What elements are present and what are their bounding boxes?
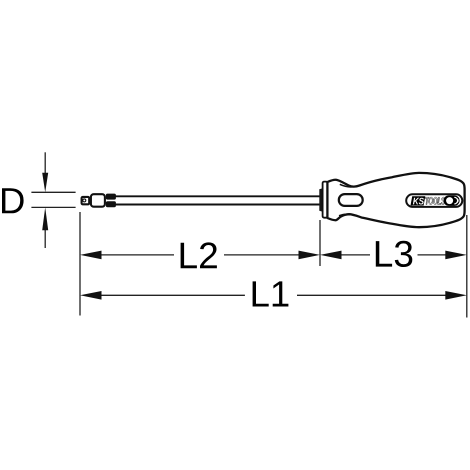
- label L1: [253, 281, 289, 306]
- logo oval black: [444, 195, 460, 206]
- L2 left arrowhead: [80, 251, 102, 260]
- screwdriver shaft: [116, 196, 321, 204]
- D arrowhead bottom: [42, 207, 48, 230]
- label L2: [181, 242, 217, 268]
- vertical extension lines: [79, 212, 81, 316]
- TOOLS outline text: [425, 197, 445, 205]
- L3 right arrowhead: [445, 251, 467, 260]
- dimension graphics: [31, 152, 466, 317]
- logo white circle: [446, 197, 453, 204]
- handle oval slot: [339, 194, 363, 206]
- handle collar band (white): [323, 182, 328, 218]
- L2 right arrowhead: [299, 251, 321, 260]
- KS letters: [413, 198, 424, 205]
- D arrowhead top: [42, 173, 48, 193]
- adapter body: [91, 194, 105, 207]
- KS logo black flag: [411, 196, 426, 205]
- adapter collar lower block: [106, 201, 116, 207]
- L2 dimension line: [97, 254, 174, 256]
- D extension lines: [31, 191, 75, 193]
- L1 dimension line: [97, 294, 245, 296]
- L1 left arrowhead: [80, 291, 102, 300]
- ball detent: [83, 199, 86, 202]
- L1 right arrowhead: [445, 291, 467, 300]
- label D: [2, 188, 24, 213]
- bottom finger-groove crease: [339, 214, 357, 216]
- label L3: [376, 241, 413, 267]
- square drive tip: [82, 197, 90, 204]
- adapter collar upper block: [106, 194, 116, 200]
- D arrow tails: [44, 152, 46, 174]
- rear face stadium: [406, 194, 462, 207]
- L3 left arrowhead: [320, 251, 342, 260]
- handle ferrule (black): [319, 188, 322, 211]
- L3 dimension line: [337, 254, 370, 256]
- handle body outline: [327, 173, 464, 227]
- top finger-groove crease: [340, 184, 361, 187]
- logo arc 1: [454, 197, 457, 204]
- logo arc 2: [457, 199, 459, 203]
